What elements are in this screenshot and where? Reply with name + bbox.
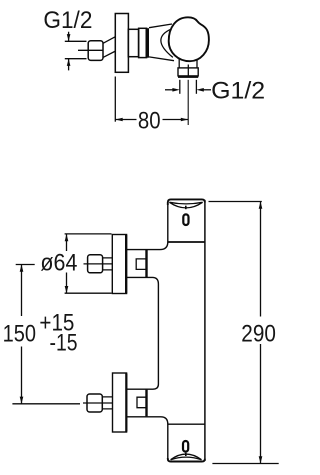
150 dim tick bottom (long centerline) [12,403,80,405]
upper valve body face line [145,250,147,277]
290 dimension line [260,202,262,464]
arrow left-pointing at right ext [204,89,212,91]
wall plate (side view) [115,14,128,73]
bottom crescent center tick [185,453,187,456]
fitting centerline [78,49,103,51]
bottom cap top chord [168,423,205,425]
svg-text:80: 80 [138,107,161,134]
outlet neck lines [179,59,197,68]
upper wall plate [112,235,126,294]
extension line top [65,40,87,42]
inlet hex fitting (side view) [88,41,103,61]
dia64 extension line bottom [65,292,112,294]
diagonal pipe to wall plate bottom [103,51,116,58]
arrow down dia64 [65,286,69,293]
collar cylinder 2 [139,28,147,57]
arrow up 290 [259,202,263,209]
upper hex fitting [88,255,103,273]
outlet extension line right [195,80,197,94]
upper plate front edge (thick) [125,235,127,293]
lower hex fitting [87,394,102,412]
lower plate front edge (thick) [125,374,127,432]
upper small nut notch [136,259,146,270]
knob (side view) [169,17,209,61]
svg-text:G1/2: G1/2 [43,7,92,34]
arrow up 150 [20,265,24,272]
lower fitting centerline [83,402,112,404]
bottom cap dome crescent [171,454,202,460]
arrow down 290 [259,456,263,463]
upper stub between fitting and plate [103,258,113,270]
upper pipe bottom edge, column left edge, lower pipe top edge [127,277,159,389]
crescent center tick [185,206,187,210]
lower wall plate [113,373,127,432]
upper fitting centerline [84,263,113,265]
diagonal pipe to wall plate top [103,37,116,44]
bottom cap bottom outline [168,458,205,462]
arrow down at top ext [67,34,71,41]
G1/2 dimension line vertical (top-left) [68,32,70,71]
collar cylinder 1 [128,29,138,56]
svg-text:G1/2: G1/2 [211,77,265,104]
arrow right at 80 dim [181,118,188,122]
body right edge [204,200,206,461]
150 dim tick top [16,264,35,266]
outlet centerline [187,80,189,125]
dia64 extension line top [65,233,112,235]
outlet threaded dark band [178,76,198,78]
top knob 0 marking [183,214,188,225]
svg-text:290: 290 [241,320,276,347]
dark ring band [146,28,150,58]
arrow up dia64 [65,234,69,241]
arrow right-pointing at left ext [165,89,173,91]
lower pipe bottom edge with fillet to bottom cap [127,417,168,459]
arrow up at bottom ext [67,59,71,66]
cone face arc [161,29,173,58]
top cap left edge [167,202,169,242]
bottom knob 0 marking [183,441,188,452]
outlet extension line left [179,80,181,94]
nut center facet line [187,65,189,76]
svg-text:150: 150 [3,320,36,347]
upper pipe top edge with fillet to cap [127,242,168,250]
lower small nut notch [137,397,146,408]
lower stub between fitting and plate [102,397,112,409]
arrow down 150 [20,397,24,404]
arrow left at 80 dim [115,118,122,122]
80 dimension extension line (from plate) [114,77,116,122]
cone body [149,24,174,61]
svg-text:-15: -15 [50,329,78,356]
outlet nut [178,68,198,76]
top cap dome crescent [169,202,202,208]
top cap outline [168,199,205,205]
svg-text:ø64: ø64 [40,249,77,276]
lower valve body face line [145,390,147,417]
290 extension line bottom [212,463,278,465]
150 dimension line [21,265,23,404]
80 dimension line [115,119,188,121]
top cap bottom chord [168,241,205,243]
290 extension line top [209,201,262,203]
extension line bottom [65,58,87,60]
dia64 dimension line [66,234,68,293]
